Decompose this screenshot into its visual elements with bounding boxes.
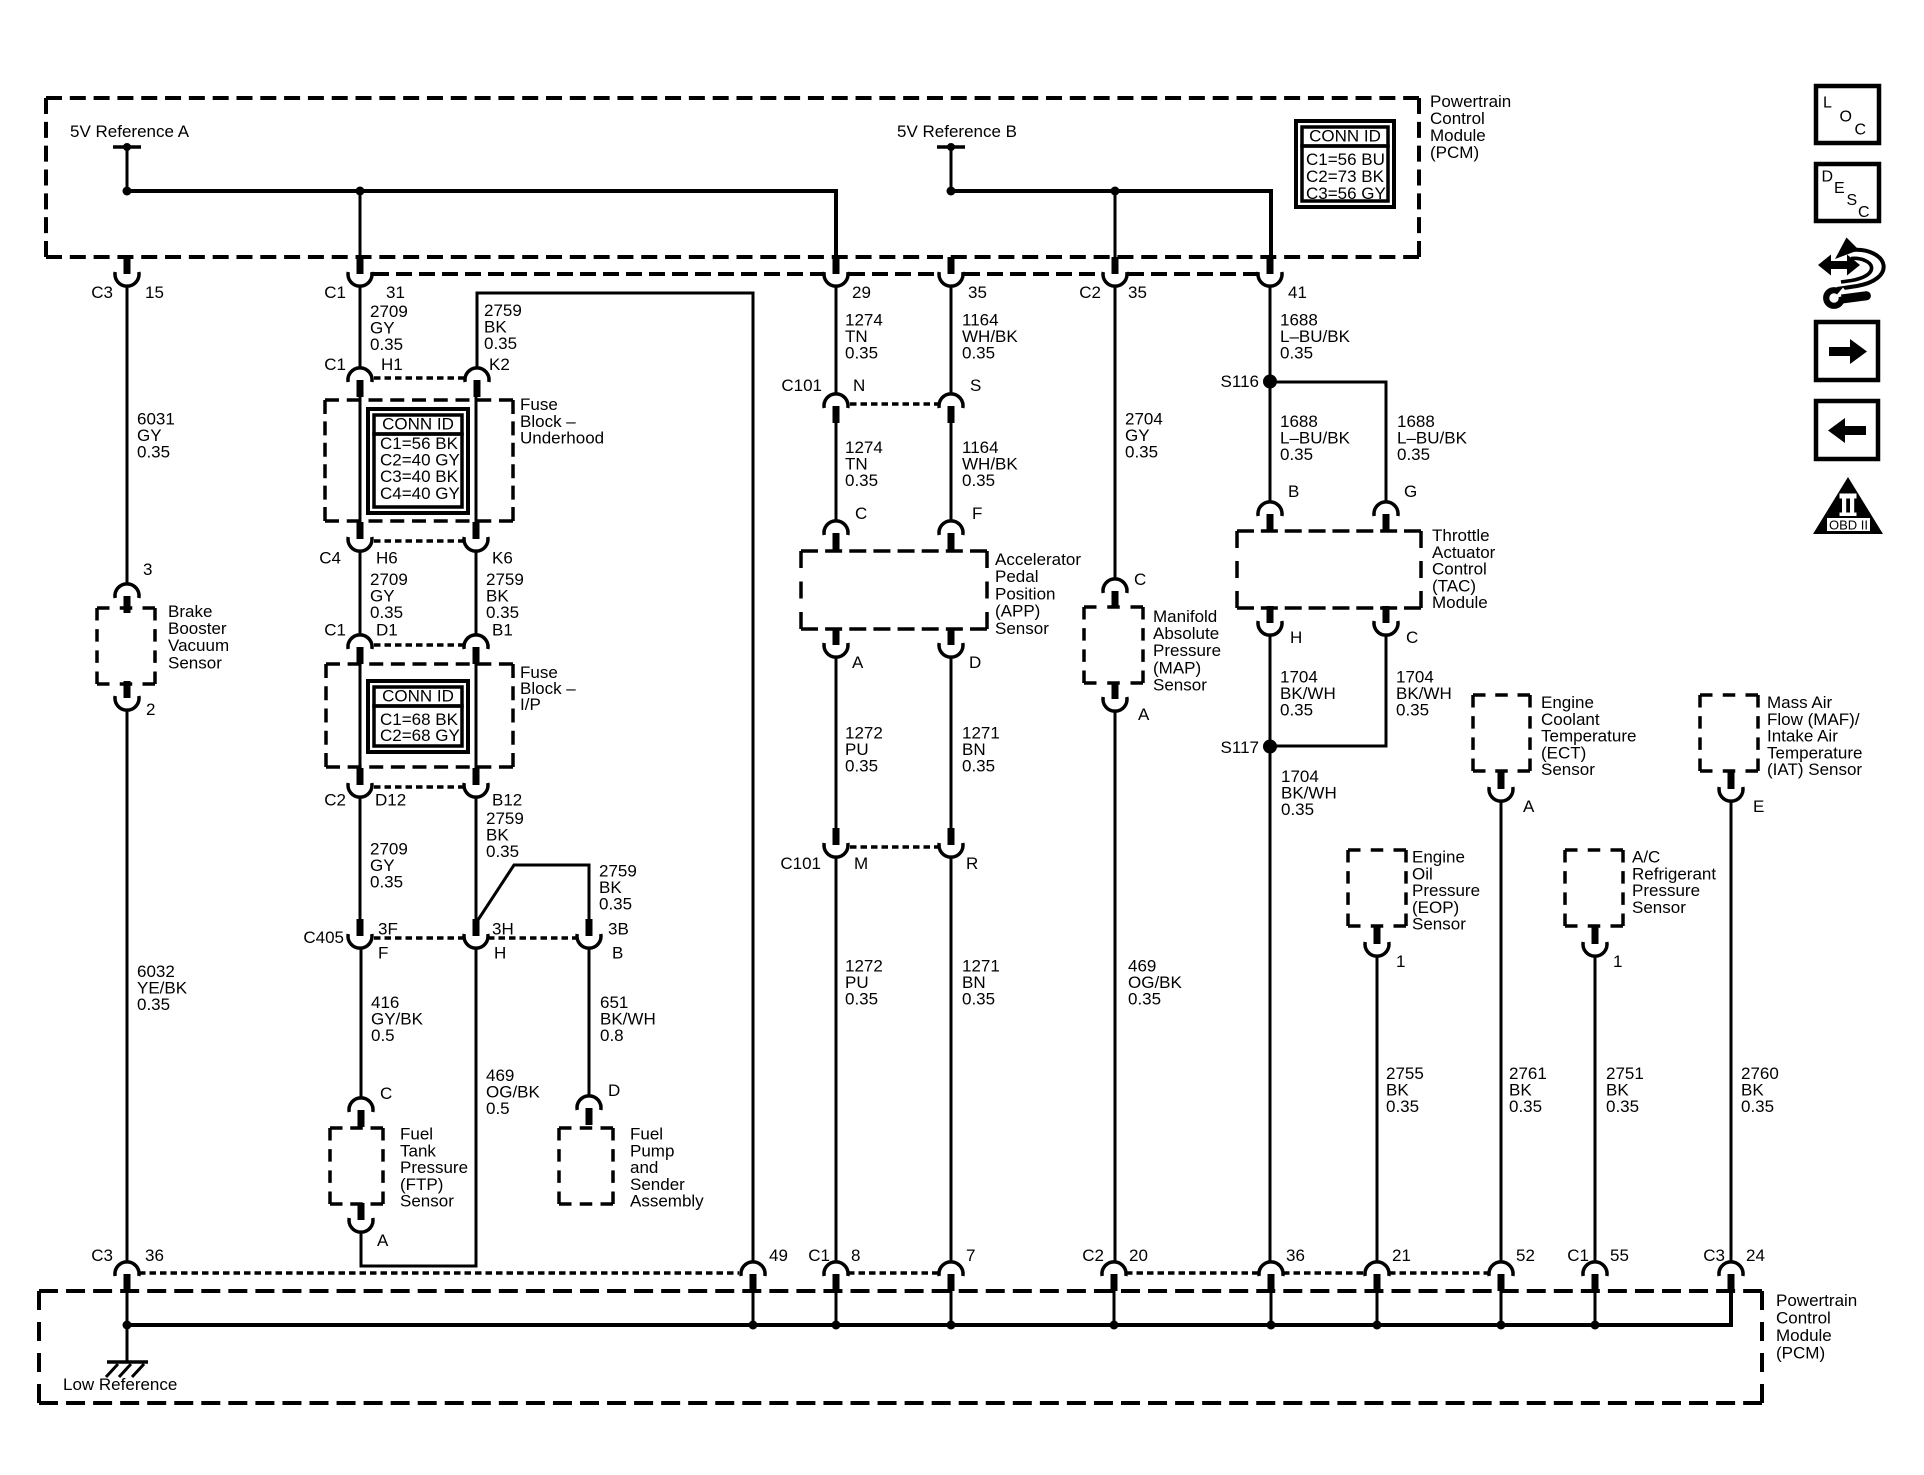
svg-text:OBD II: OBD II <box>1829 518 1868 533</box>
connector pin 21 (PCM bottom) <box>1374 1274 1381 1291</box>
svg-text:CONN ID: CONN ID <box>1309 127 1381 146</box>
connector pin A (FTP sensor) <box>358 1203 365 1220</box>
wire 1271 BN upper <box>950 657 953 828</box>
svg-text:CONN ID: CONN ID <box>382 687 454 706</box>
PCM top module box (Powertrain Control Module) <box>46 96 1419 100</box>
svg-text:24: 24 <box>1746 1246 1765 1265</box>
svg-text:15: 15 <box>145 283 164 302</box>
svg-text:0.35: 0.35 <box>1386 1097 1419 1116</box>
svg-text:Module: Module <box>1776 1326 1832 1345</box>
svg-text:C: C <box>1406 628 1418 647</box>
svg-text:F: F <box>378 944 388 963</box>
wire 469 OG/BK from C405 H to FTP pin A <box>361 948 476 1266</box>
svg-text:0.35: 0.35 <box>962 990 995 1009</box>
svg-text:C: C <box>1858 204 1870 221</box>
wire 2709 GY to fuse block <box>359 286 362 367</box>
connector C405 3F/F <box>357 919 364 936</box>
svg-text:0.35: 0.35 <box>370 603 403 622</box>
svg-text:C2: C2 <box>324 791 346 810</box>
Throttle Actuator Control Module box <box>1237 529 1421 533</box>
Fuse Block - I/P box <box>326 662 513 666</box>
svg-text:3: 3 <box>143 560 152 579</box>
svg-text:Sensor: Sensor <box>1541 760 1595 779</box>
svg-text:(PCM): (PCM) <box>1430 143 1479 162</box>
connector pin D (Fuel Pump) <box>586 1108 593 1125</box>
svg-text:21: 21 <box>1392 1246 1411 1265</box>
icon LOC box <box>1816 86 1879 143</box>
wire bus B drop to C2 35 <box>1114 191 1117 265</box>
svg-text:0.8: 0.8 <box>600 1026 624 1045</box>
svg-text:Underhood: Underhood <box>520 429 604 448</box>
CONN ID table (PCM): C1=56 BU / C2=73 BK / C3=56 GY <box>1296 121 1394 207</box>
wire 1164 WH/BK lower <box>950 423 953 520</box>
CONN ID table (Fuse Block I/P) <box>368 681 468 752</box>
svg-text:Control: Control <box>1776 1309 1831 1328</box>
svg-text:0.35: 0.35 <box>962 344 995 363</box>
connector pin 49 (PCM bottom) <box>750 1274 757 1291</box>
svg-text:C1: C1 <box>808 1246 830 1265</box>
svg-text:C: C <box>380 1084 392 1103</box>
svg-text:0.35: 0.35 <box>370 335 403 354</box>
icon arrow right box <box>1816 322 1878 380</box>
connector C2 pin 35 (PCM) <box>1112 257 1119 274</box>
svg-text:D12: D12 <box>375 791 406 810</box>
wire 1164 WH/BK upper <box>950 286 953 394</box>
svg-text:C101: C101 <box>781 376 822 395</box>
svg-text:0.5: 0.5 <box>371 1026 395 1045</box>
svg-text:0.35: 0.35 <box>1280 344 1313 363</box>
svg-text:29: 29 <box>852 283 871 302</box>
Mass Air Flow / IAT Sensor box <box>1700 693 1758 697</box>
connector C3 pin 15 (PCM) <box>124 257 131 274</box>
svg-text:36: 36 <box>145 1246 164 1265</box>
svg-text:C1: C1 <box>324 621 346 640</box>
connector C101 S <box>948 406 955 423</box>
wire 2709 GY D12-3F <box>359 797 362 920</box>
svg-text:B12: B12 <box>492 791 522 810</box>
svg-text:C2: C2 <box>1079 283 1101 302</box>
svg-text:C3: C3 <box>91 283 113 302</box>
svg-text:B: B <box>612 944 623 963</box>
connector C2 D12 (Fuse Block I/P) <box>357 768 364 785</box>
svg-text:(APP): (APP) <box>995 602 1040 621</box>
svg-text:C3=56 GY: C3=56 GY <box>1306 184 1386 203</box>
svg-text:H: H <box>1290 628 1302 647</box>
wire 2759 BK B12-3H <box>475 797 478 920</box>
svg-text:0.35: 0.35 <box>845 990 878 1009</box>
Accelerator Pedal Position Sensor box <box>801 549 987 553</box>
connector C1 pin 8 (PCM bottom) <box>833 1274 840 1291</box>
icon arrow left box <box>1816 401 1878 459</box>
svg-text:0.35: 0.35 <box>486 603 519 622</box>
svg-text:C: C <box>1134 570 1146 589</box>
dotted tie D12-B12 <box>374 785 464 789</box>
svg-text:D: D <box>608 1081 620 1100</box>
svg-text:G: G <box>1404 482 1417 501</box>
junction node bus B / pin 35 <box>947 187 956 196</box>
svg-text:K2: K2 <box>489 355 510 374</box>
connector pin C (FTP sensor) <box>358 1110 365 1127</box>
dotted tie C101 M-R <box>850 845 939 849</box>
svg-text:0.35: 0.35 <box>1280 701 1313 720</box>
connector pin A (ECT sensor) <box>1498 772 1505 789</box>
svg-text:A: A <box>1523 797 1535 816</box>
svg-text:52: 52 <box>1516 1246 1535 1265</box>
svg-text:B: B <box>1288 482 1299 501</box>
svg-text:0.35: 0.35 <box>1125 443 1158 462</box>
connector pin 52 (PCM bottom) <box>1498 1274 1505 1291</box>
svg-text:Sensor: Sensor <box>1412 915 1466 934</box>
icon OBD II triangle <box>1813 477 1883 534</box>
dotted tie H6-K6 <box>374 539 464 543</box>
svg-text:0.35: 0.35 <box>1397 445 1430 464</box>
svg-text:C3: C3 <box>91 1246 113 1265</box>
svg-text:Sensor: Sensor <box>400 1192 454 1211</box>
svg-text:C2: C2 <box>1082 1246 1104 1265</box>
connector pin B (TAC module) <box>1267 514 1274 531</box>
svg-text:3B: 3B <box>608 920 629 939</box>
svg-text:K6: K6 <box>492 549 513 568</box>
svg-text:7: 7 <box>966 1246 975 1265</box>
svg-text:0.35: 0.35 <box>370 873 403 892</box>
connector pin A (APP sensor) <box>833 628 840 645</box>
connector pin G (TAC module) <box>1383 514 1390 531</box>
wire 2751 BK <box>1594 956 1597 1261</box>
svg-text:L: L <box>1823 95 1832 112</box>
svg-text:0.35: 0.35 <box>599 895 632 914</box>
svg-text:CONN ID: CONN ID <box>382 415 454 434</box>
svg-text:0.35: 0.35 <box>1509 1097 1542 1116</box>
svg-text:Sensor: Sensor <box>1632 898 1686 917</box>
svg-text:A: A <box>852 653 864 672</box>
Fuel Tank Pressure Sensor box <box>330 1126 383 1130</box>
svg-text:F: F <box>972 504 982 523</box>
connector C1 pin 55 (PCM bottom) <box>1592 1274 1599 1291</box>
Brake Booster Vacuum Sensor box <box>97 606 155 610</box>
svg-text:8: 8 <box>851 1246 860 1265</box>
svg-text:0.35: 0.35 <box>1280 445 1313 464</box>
svg-text:55: 55 <box>1610 1246 1629 1265</box>
connector pin 1 (A/C sensor) <box>1592 927 1599 944</box>
wire S116 to TAC B <box>1269 286 1272 502</box>
wire through fuse block H1-H6 <box>359 396 362 524</box>
dotted tie H1-K2 <box>374 376 464 380</box>
svg-text:C: C <box>855 504 867 523</box>
svg-text:Accelerator: Accelerator <box>995 550 1081 569</box>
dotted tie bottom C3/36 to 49 <box>139 1271 739 1275</box>
connector K6 (Fuse Block Underhood) <box>473 522 480 539</box>
wire C3 36 into PCM <box>126 1291 129 1325</box>
wire 1704 BK/WH from C to S117 <box>1270 635 1386 746</box>
connector C101 N <box>833 406 840 423</box>
wire 2760 BK <box>1730 801 1733 1261</box>
connector pin D (APP sensor) <box>948 628 955 645</box>
svg-text:2: 2 <box>146 700 155 719</box>
svg-text:D: D <box>969 653 981 672</box>
connector pin 1 (EOP sensor) <box>1374 927 1381 944</box>
connector B1 (Fuse Block I/P) <box>473 647 480 664</box>
wire bus A drop to C1 31 <box>359 191 362 265</box>
svg-text:35: 35 <box>968 283 987 302</box>
connector pin A (MAP sensor) <box>1112 682 1119 699</box>
wire 1704 BK/WH to PCM 36 <box>1269 635 1272 1261</box>
connector C3 pin 24 (PCM bottom) <box>1728 1274 1735 1291</box>
wire branch 2759 BK to 3B <box>476 865 589 923</box>
connector B12 (Fuse Block I/P) <box>473 768 480 785</box>
wire 416 GY/BK to FTP sensor <box>360 948 363 1097</box>
connector pin 3 (Brake Booster Vacuum Sensor) <box>124 596 131 613</box>
dotted tie C405 3F-3H-3B <box>374 936 464 940</box>
svg-text:Sensor: Sensor <box>1153 675 1207 694</box>
wire 2755 BK <box>1376 956 1379 1261</box>
dotted tie D1-B1 <box>374 643 464 647</box>
connector C101 R <box>948 828 955 845</box>
svg-text:M: M <box>854 854 868 873</box>
splice S117 <box>1263 740 1277 754</box>
wire 651 BK/WH to Fuel Pump <box>588 948 591 1095</box>
svg-text:R: R <box>966 854 978 873</box>
connector pin C (APP sensor) <box>833 533 840 550</box>
connector C4 H6 (Fuse Block Underhood) <box>357 522 364 539</box>
wire through fuse block K2-K6 <box>475 396 478 524</box>
svg-text:0.5: 0.5 <box>486 1099 510 1118</box>
svg-text:3H: 3H <box>492 920 514 939</box>
svg-text:35: 35 <box>1128 283 1147 302</box>
bus wire 5V Reference B <box>951 191 1271 265</box>
wire 2759 BK from PCM pin 49 riser <box>477 293 753 1261</box>
wire through I/P block D1-D12 <box>359 662 362 770</box>
connector pin F (APP sensor) <box>948 533 955 550</box>
Manifold Absolute Pressure Sensor box <box>1084 605 1143 609</box>
svg-text:O: O <box>1840 109 1852 126</box>
svg-text:A: A <box>377 1231 389 1250</box>
connector pin 7 (PCM bottom) <box>948 1274 955 1291</box>
svg-text:0.35: 0.35 <box>845 344 878 363</box>
svg-text:0.35: 0.35 <box>962 757 995 776</box>
A/C Refrigerant Pressure Sensor box <box>1565 848 1623 852</box>
wire through I/P block B1-B12 <box>475 662 478 770</box>
svg-text:Sensor: Sensor <box>168 653 222 672</box>
svg-text:Sensor: Sensor <box>995 619 1049 638</box>
connector pin 36 (PCM bottom) <box>1268 1274 1275 1291</box>
dotted tie bottom C2/20 to 52 <box>1126 1271 1259 1275</box>
low reference bus <box>127 1292 1731 1325</box>
Engine Coolant Temperature Sensor box <box>1473 693 1530 697</box>
svg-text:Position: Position <box>995 584 1055 603</box>
svg-text:C101: C101 <box>780 854 821 873</box>
Fuse Block - Underhood box <box>325 398 513 402</box>
connector C405 3B/B <box>586 919 593 936</box>
svg-text:Low Reference: Low Reference <box>63 1375 177 1394</box>
svg-text:S116: S116 <box>1221 372 1259 391</box>
wire 1271 BN lower <box>950 857 953 1261</box>
svg-text:D1: D1 <box>376 621 398 640</box>
connector pin C (MAP sensor) <box>1112 591 1119 608</box>
svg-text:Module: Module <box>1432 593 1488 612</box>
svg-text:41: 41 <box>1288 283 1307 302</box>
icon DESC box <box>1816 164 1879 221</box>
svg-text:C1: C1 <box>1567 1246 1589 1265</box>
svg-text:0.35: 0.35 <box>845 471 878 490</box>
svg-text:Assembly: Assembly <box>630 1192 704 1211</box>
svg-text:C4: C4 <box>319 549 341 568</box>
junction node bus A / C3-15 <box>123 187 132 196</box>
dotted tie C101 N-S <box>850 402 939 406</box>
svg-text:0.35: 0.35 <box>1741 1097 1774 1116</box>
connector pin H (TAC module) <box>1267 606 1274 623</box>
svg-text:0.35: 0.35 <box>962 471 995 490</box>
svg-text:C1: C1 <box>324 283 346 302</box>
svg-text:20: 20 <box>1129 1246 1148 1265</box>
wire 1274 TN lower <box>835 423 838 520</box>
svg-text:H1: H1 <box>381 355 403 374</box>
junction node bus B / C2 35 <box>1111 187 1120 196</box>
svg-text:E: E <box>1834 180 1845 197</box>
svg-text:49: 49 <box>769 1246 788 1265</box>
svg-text:0.35: 0.35 <box>1128 990 1161 1009</box>
svg-text:0.35: 0.35 <box>1396 701 1429 720</box>
CONN ID table (Fuse Block Underhood) <box>368 409 468 513</box>
svg-text:C: C <box>1855 122 1867 139</box>
dotted tie top row C1/31 to 41 <box>373 272 823 276</box>
svg-text:0.35: 0.35 <box>484 334 517 353</box>
icon connector repair (double arrow and wrench) <box>1818 238 1884 306</box>
connector pin C (TAC module) <box>1383 606 1390 623</box>
svg-text:0.35: 0.35 <box>1606 1097 1639 1116</box>
connector K2 (Fuse Block Underhood) <box>474 380 481 397</box>
svg-text:0.35: 0.35 <box>137 443 170 462</box>
svg-text:0.35: 0.35 <box>137 995 170 1014</box>
svg-text:0.35: 0.35 <box>845 757 878 776</box>
connector C101 M <box>833 828 840 845</box>
svg-text:0.35: 0.35 <box>486 842 519 861</box>
connector C1 H1 (Fuse Block Underhood) <box>357 380 364 397</box>
svg-text:5V Reference B: 5V Reference B <box>897 122 1017 141</box>
svg-text:B1: B1 <box>492 621 513 640</box>
svg-text:0.35: 0.35 <box>1281 800 1314 819</box>
svg-text:S117: S117 <box>1221 738 1259 757</box>
wire 1274 TN upper <box>835 286 838 394</box>
svg-text:I/P: I/P <box>520 695 541 714</box>
wire 1272 PU upper <box>835 657 838 828</box>
connector C1 D1 (Fuse Block I/P) <box>357 647 364 664</box>
svg-text:(PCM): (PCM) <box>1776 1344 1825 1363</box>
connector C405 3H/H <box>473 919 480 936</box>
bus wire 5V Reference A <box>127 191 836 265</box>
connector pin 29 (PCM) <box>833 257 840 274</box>
wire 2761 BK <box>1500 801 1503 1261</box>
svg-text:H: H <box>494 944 506 963</box>
svg-text:C4=40 GY: C4=40 GY <box>380 484 460 503</box>
wire 2709 GY H6-D1 <box>359 551 362 634</box>
ground symbol Low Reference <box>126 1325 129 1362</box>
splice S116 <box>1263 375 1277 389</box>
svg-text:S: S <box>970 376 981 395</box>
svg-text:31: 31 <box>386 283 405 302</box>
svg-text:1: 1 <box>1613 952 1622 971</box>
svg-text:36: 36 <box>1286 1246 1305 1265</box>
wire 2759 BK K6-B1 <box>475 551 478 634</box>
wire 6031 GY <box>126 286 129 583</box>
svg-text:N: N <box>853 376 865 395</box>
Fuel Pump and Sender Assembly box <box>559 1126 613 1130</box>
connector C2 pin 20 (PCM bottom) <box>1111 1274 1118 1291</box>
svg-text:S: S <box>1847 192 1858 209</box>
svg-text:Powertrain: Powertrain <box>1776 1291 1857 1310</box>
svg-text:D: D <box>1822 169 1834 186</box>
connector C3 pin 36 (PCM) <box>124 1274 131 1291</box>
svg-text:C405: C405 <box>303 928 344 947</box>
svg-text:E: E <box>1753 797 1764 816</box>
svg-text:(IAT) Sensor: (IAT) Sensor <box>1767 760 1862 779</box>
connector C1 pin 31 (PCM) <box>357 257 364 274</box>
wire S116 branch to TAC G <box>1270 382 1386 502</box>
junction node bus A / C1-31 <box>356 187 365 196</box>
svg-text:C2=68 GY: C2=68 GY <box>380 726 460 745</box>
PCM bottom module box (Powertrain Control Module) <box>39 1289 1762 1293</box>
wire 469 OG/BK to PCM 20 <box>1114 711 1117 1261</box>
svg-text:H6: H6 <box>376 549 398 568</box>
connector pin E (MAF sensor) <box>1728 772 1735 789</box>
wire 6032 YE/BK <box>126 710 129 1261</box>
svg-text:C3: C3 <box>1703 1246 1725 1265</box>
Engine Oil Pressure Sensor box <box>1348 848 1406 852</box>
svg-text:1: 1 <box>1396 952 1405 971</box>
wire 1272 PU lower <box>835 857 838 1261</box>
svg-text:C1: C1 <box>324 355 346 374</box>
svg-text:Pedal: Pedal <box>995 567 1038 586</box>
svg-text:3F: 3F <box>378 920 398 939</box>
wire 2704 GY <box>1114 286 1117 578</box>
connector pin 2 (Brake Booster Vacuum Sensor) <box>124 681 131 698</box>
connector pin 35 (PCM) <box>948 257 955 274</box>
dotted tie bottom C1/8 to 7 <box>848 1271 939 1275</box>
svg-text:5V Reference A: 5V Reference A <box>70 122 190 141</box>
connector pin 41 (PCM) <box>1267 257 1274 274</box>
svg-text:A: A <box>1138 705 1150 724</box>
